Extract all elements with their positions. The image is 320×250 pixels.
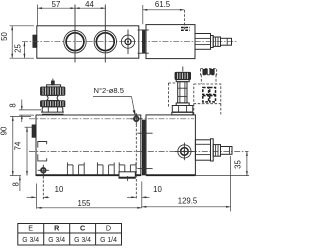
knob upper knurl <box>40 87 65 96</box>
port circle E <box>64 5 86 63</box>
dimension 90 <box>0 116 31 175</box>
port circle D small <box>121 30 134 55</box>
front body <box>36 115 142 175</box>
port cavity R <box>97 162 114 174</box>
bottom extension hole1 dashed <box>42 176 44 199</box>
svg-text:44: 44 <box>85 0 94 9</box>
svg-text:50: 50 <box>0 32 9 41</box>
svg-text:G 3/4: G 3/4 <box>22 237 39 244</box>
dimension 10 right <box>127 185 162 198</box>
cartridge washer <box>172 112 193 115</box>
svg-text:61.5: 61.5 <box>155 0 171 9</box>
dimension 74 <box>14 127 34 175</box>
svg-text:155: 155 <box>77 199 91 208</box>
front lower centerline <box>29 150 249 152</box>
svg-text:D: D <box>106 224 111 233</box>
svg-text:8: 8 <box>11 182 20 186</box>
front left tab <box>32 125 36 138</box>
svg-text:G 3/4: G 3/4 <box>48 237 65 244</box>
bottom extension rod tip <box>230 156 232 211</box>
dimension 25 <box>14 42 26 59</box>
solenoid coil dashed <box>194 84 221 114</box>
right block front view <box>146 115 195 175</box>
svg-text:10: 10 <box>153 185 162 194</box>
dimension 8 <box>9 100 42 123</box>
knob top cap <box>47 85 61 87</box>
cartridge body <box>178 82 187 103</box>
adjuster screw top view <box>195 34 232 50</box>
svg-text:90: 90 <box>0 126 9 135</box>
knob pin <box>51 81 54 85</box>
adjuster screw front view <box>195 139 232 161</box>
svg-text:129.5: 129.5 <box>178 196 198 205</box>
knob waist <box>47 95 59 100</box>
valve block top view <box>146 25 195 59</box>
interface gasket top view <box>138 30 149 53</box>
solenoid ghost left <box>168 83 175 108</box>
cartridge cap <box>175 67 191 80</box>
knob centerline <box>52 79 54 83</box>
port table <box>18 224 122 246</box>
knob lower knurl <box>40 101 65 107</box>
side port cavity lower bracket <box>38 154 47 161</box>
interface gasket front view <box>137 120 152 175</box>
top view left tab <box>33 35 37 48</box>
dimension 155 <box>37 199 142 209</box>
svg-text:R: R <box>54 224 60 233</box>
dimension 10 left <box>27 185 64 198</box>
boss circle <box>175 143 194 161</box>
svg-text:N°2-ø8.5: N°2-ø8.5 <box>94 86 124 95</box>
top view main body <box>37 26 139 58</box>
dimension 57 <box>38 0 106 25</box>
dimension 50 <box>0 26 34 58</box>
cartridge flange upper <box>176 80 189 82</box>
dimension 8 step <box>11 176 21 191</box>
dimension 129.5 <box>142 196 231 207</box>
dimension 44 <box>85 0 105 9</box>
bottom extension line left edge <box>36 184 38 209</box>
knob hex nut <box>41 107 64 114</box>
bolt hole 2 <box>131 113 142 124</box>
cartridge flange lower <box>176 103 189 106</box>
solenoid windows <box>203 88 216 102</box>
svg-text:8: 8 <box>9 103 18 107</box>
solenoid connector cap <box>201 69 217 85</box>
front upper centerline <box>29 118 194 120</box>
bottom step plate <box>119 172 135 178</box>
port circle R <box>94 5 116 63</box>
bolt hole 1 <box>38 165 49 176</box>
svg-text:C: C <box>80 224 85 233</box>
svg-text:G 1/4: G 1/4 <box>100 237 117 244</box>
hidden spring detail top view <box>181 10 190 31</box>
svg-text:25: 25 <box>14 44 23 53</box>
port cavity E <box>67 162 84 174</box>
port cavity C <box>119 162 136 174</box>
bottom extension hole2 dashed <box>135 124 137 198</box>
bottom extension body right edge <box>141 182 143 209</box>
svg-text:35: 35 <box>234 160 243 169</box>
svg-text:10: 10 <box>55 185 64 194</box>
svg-text:57: 57 <box>52 0 61 9</box>
dimension 61.5 <box>143 0 185 24</box>
cartridge hex <box>172 106 193 113</box>
leader note N°2-ø8.5 <box>93 86 136 116</box>
svg-text:74: 74 <box>14 141 23 150</box>
top view centerline <box>22 41 238 43</box>
side port cavity upper bracket <box>38 142 47 148</box>
svg-text:G 3/4: G 3/4 <box>74 237 91 244</box>
svg-text:E: E <box>28 224 33 233</box>
dimension 35 <box>196 151 249 175</box>
